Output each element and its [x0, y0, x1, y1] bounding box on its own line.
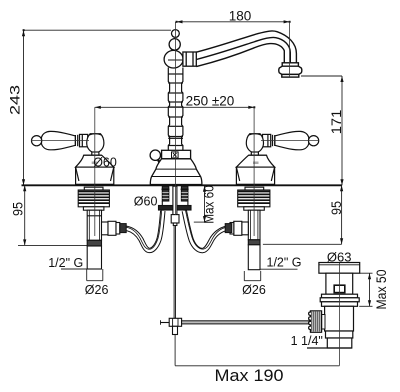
svg-text:1 1/4": 1 1/4" — [291, 334, 323, 348]
svg-text:1/2" G: 1/2" G — [267, 256, 302, 270]
svg-text:Ø63: Ø63 — [327, 249, 352, 264]
svg-text:1/2" G: 1/2" G — [48, 256, 83, 270]
svg-text:250 ±20: 250 ±20 — [186, 93, 235, 108]
svg-text:Max 50: Max 50 — [373, 269, 389, 309]
svg-text:Ø26: Ø26 — [85, 283, 109, 297]
svg-text:95: 95 — [9, 202, 25, 216]
svg-text:171: 171 — [328, 110, 344, 135]
svg-text:Ø26: Ø26 — [242, 283, 266, 297]
svg-text:243: 243 — [6, 85, 22, 115]
svg-text:Ø60: Ø60 — [93, 155, 117, 169]
svg-text:Max 190: Max 190 — [215, 366, 284, 385]
svg-text:Ø60: Ø60 — [134, 195, 158, 209]
svg-text:Max 60: Max 60 — [201, 185, 217, 224]
svg-text:95: 95 — [328, 201, 344, 215]
svg-text:180: 180 — [229, 9, 252, 24]
